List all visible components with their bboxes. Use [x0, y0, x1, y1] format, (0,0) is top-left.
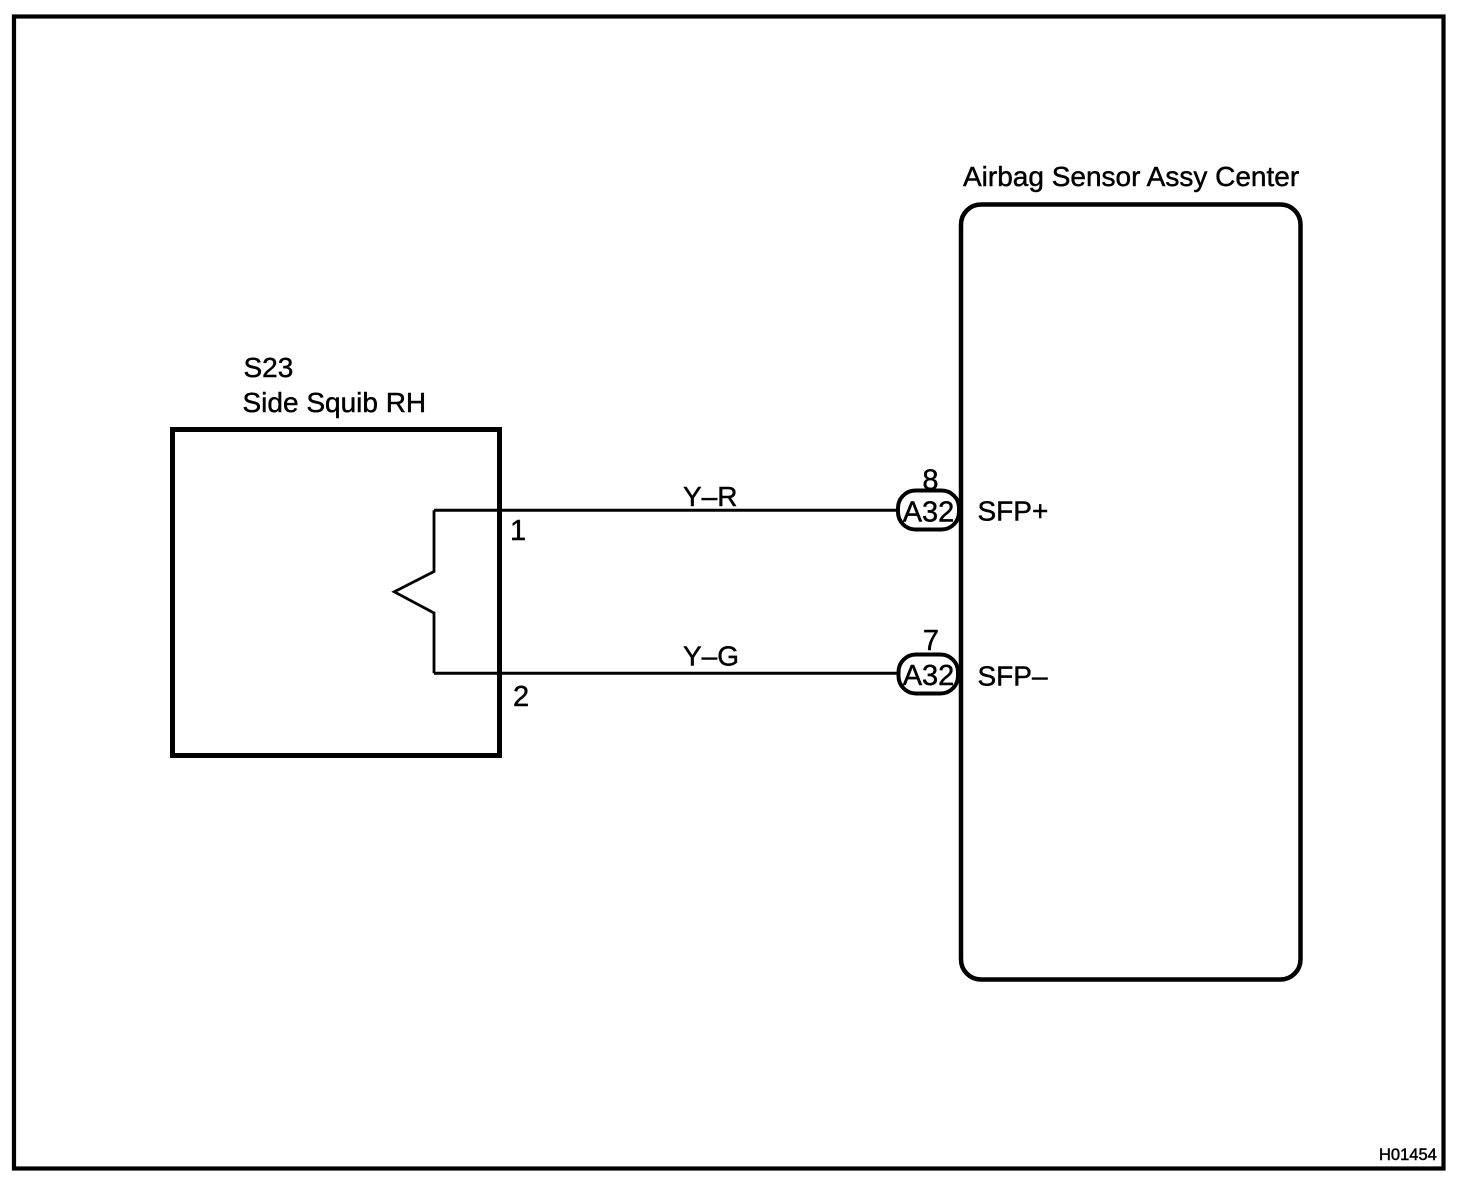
svg-text:SFP–: SFP– — [978, 661, 1048, 692]
svg-text:H01454: H01454 — [1379, 1146, 1437, 1164]
svg-text:Y–R: Y–R — [683, 481, 737, 512]
ECU box Airbag Sensor Assy Center — [961, 205, 1301, 980]
svg-text:Side Squib RH: Side Squib RH — [243, 387, 427, 418]
svg-text:Airbag Sensor Assy Center: Airbag Sensor Assy Center — [963, 161, 1299, 192]
label S23 — [244, 352, 294, 383]
svg-text:SFP+: SFP+ — [978, 496, 1049, 527]
net label SFP+ — [978, 496, 1049, 527]
wire Y-R (squib pin 1 to A32 pin 8) — [434, 509, 899, 512]
figure id H01454 — [1379, 1146, 1437, 1164]
wire Y-G (squib pin 2 to A32 pin 7) — [434, 672, 899, 675]
wire label Y-R — [683, 481, 737, 512]
pin 2 label — [513, 681, 529, 713]
connector A32 pin 7 oval — [899, 655, 959, 694]
svg-text:Y–G: Y–G — [683, 641, 739, 672]
svg-text:2: 2 — [513, 681, 529, 713]
svg-text:S23: S23 — [244, 352, 294, 383]
label Side Squib RH — [243, 387, 427, 418]
net label SFP- — [978, 661, 1048, 692]
pin 1 label — [510, 515, 526, 547]
svg-text:1: 1 — [510, 515, 526, 547]
svg-text:7: 7 — [923, 625, 939, 657]
label Airbag Sensor Assy Center — [963, 161, 1299, 192]
squib element (chevron symbol inside S23 box) — [394, 510, 434, 673]
connector A32 pin 8 oval — [898, 491, 959, 530]
pin 8 label — [922, 465, 938, 497]
svg-text:A32: A32 — [903, 660, 955, 692]
wire label Y-G — [683, 641, 739, 672]
svg-text:A32: A32 — [903, 496, 955, 528]
connector S23 Side Squib RH box — [173, 430, 500, 756]
pin 7 label — [923, 625, 939, 657]
